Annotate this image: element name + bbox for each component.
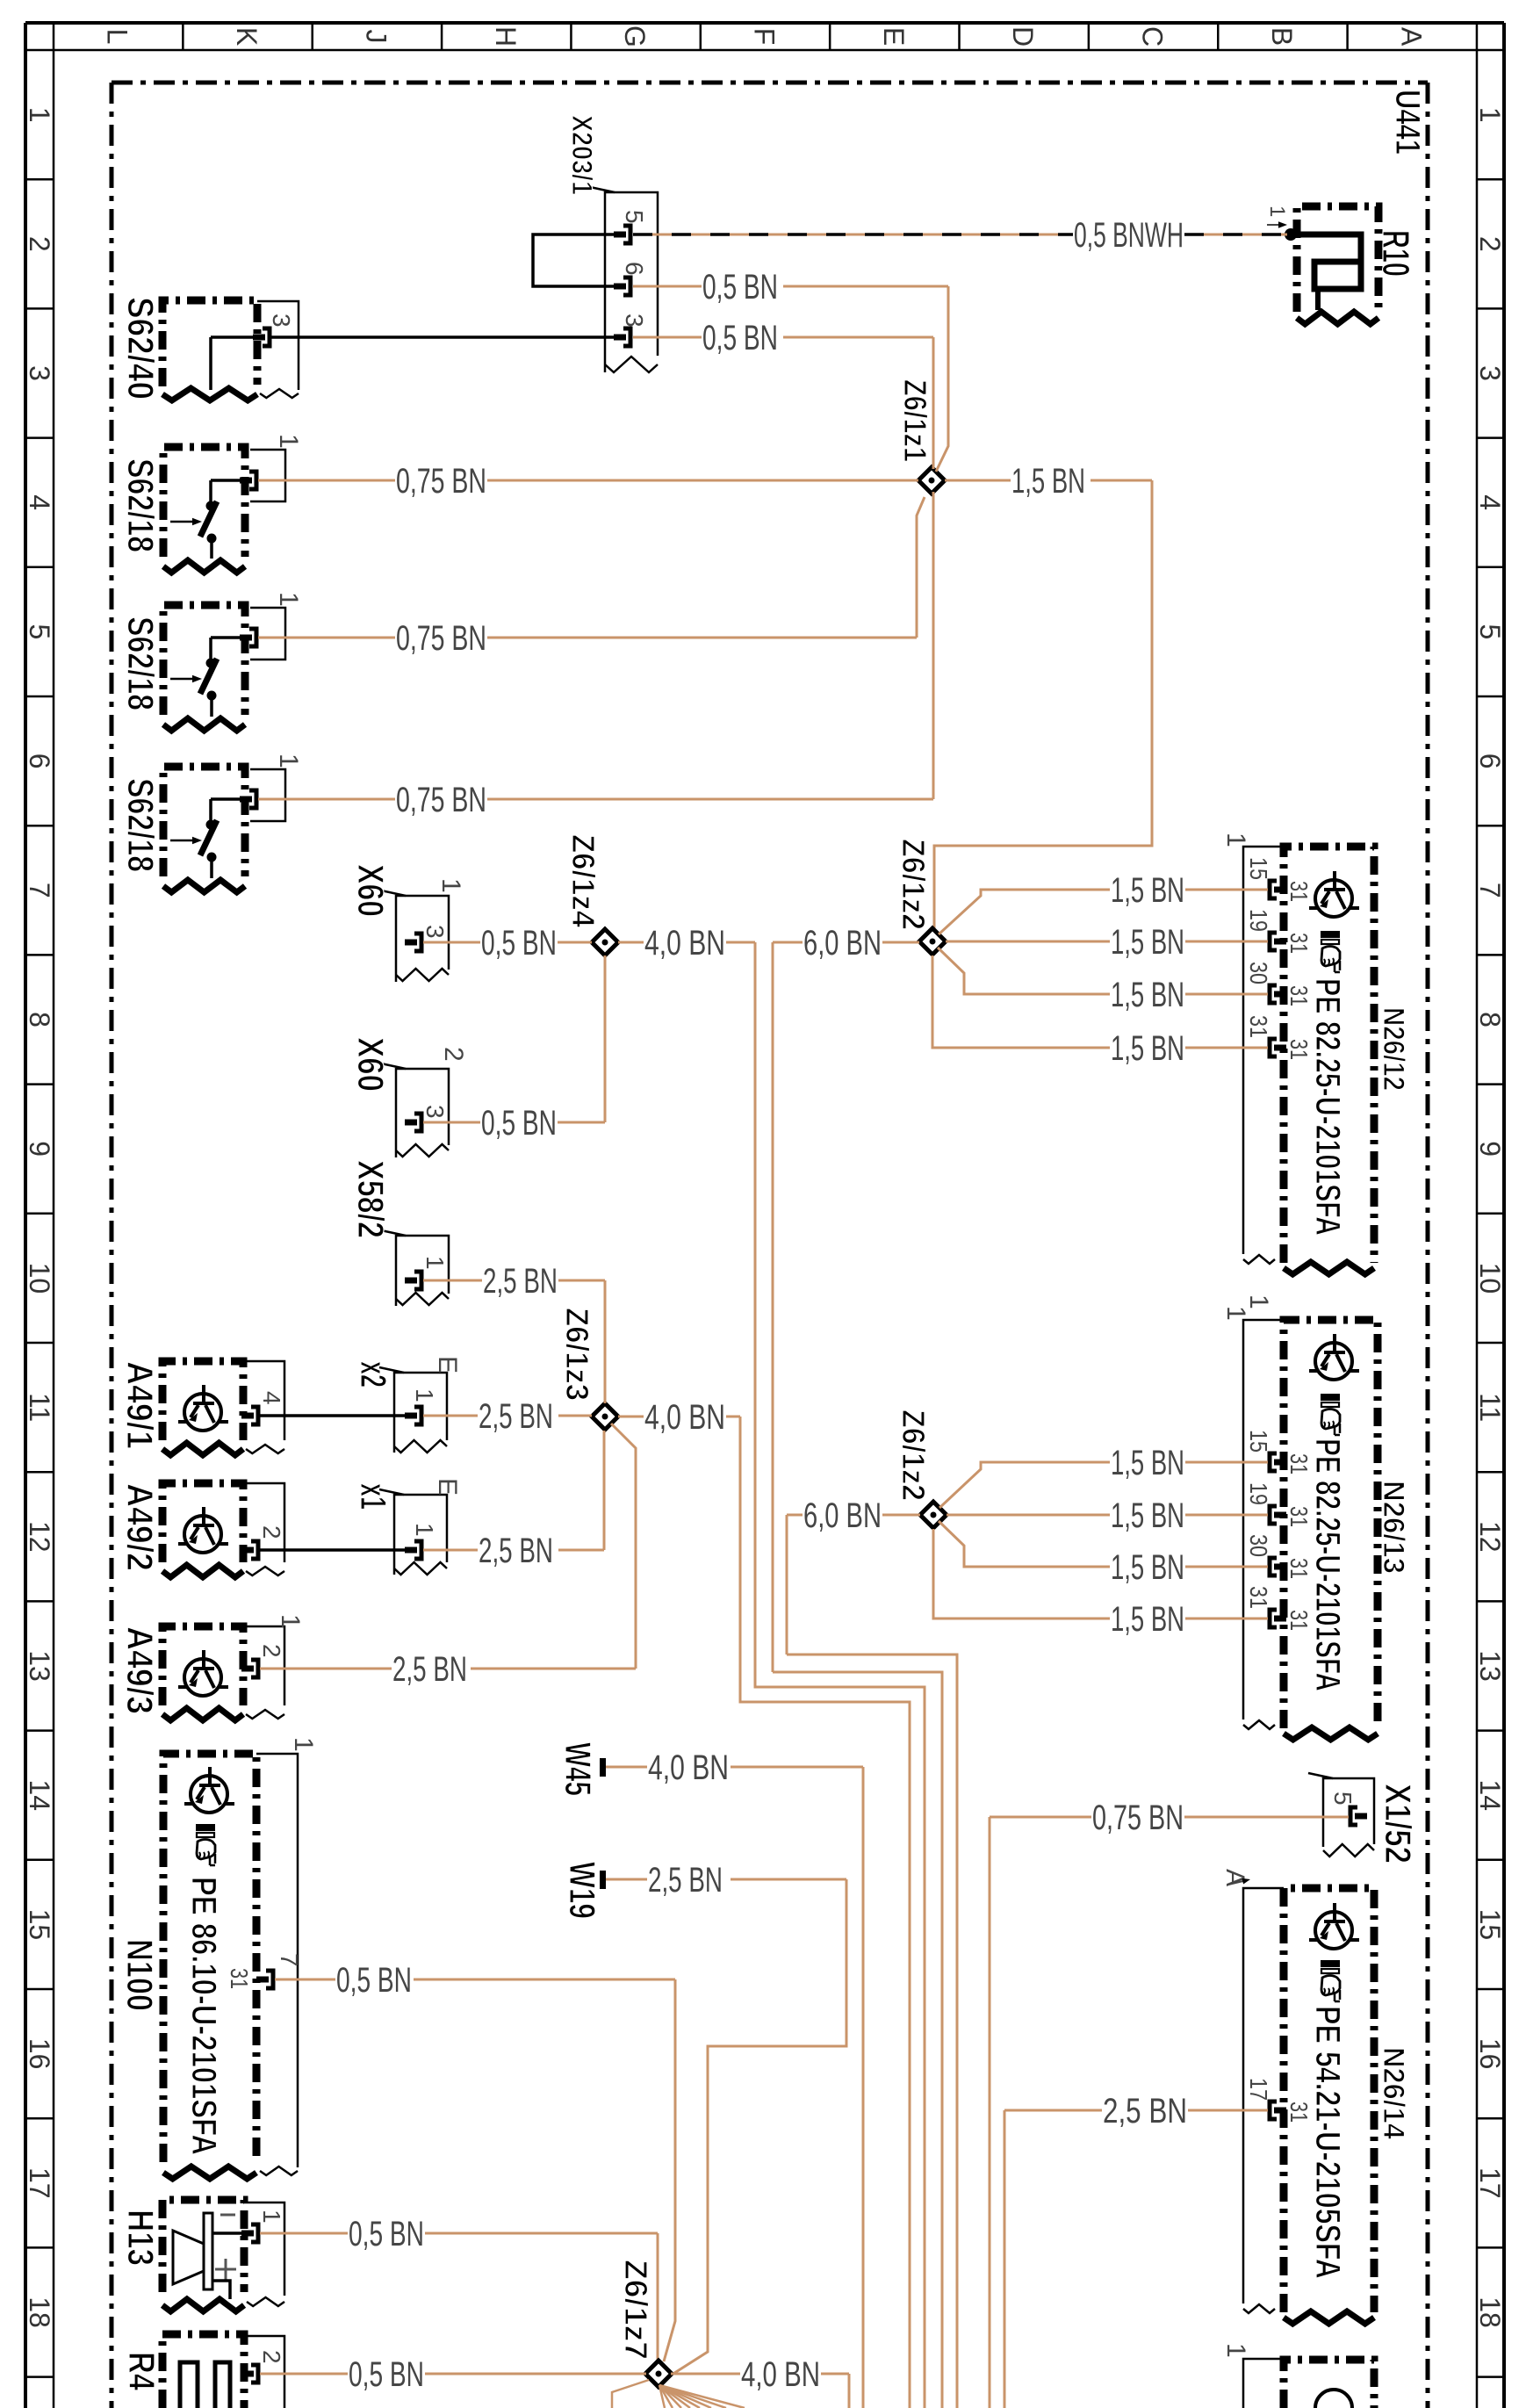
wire 1,5 BN Z6/1z1 to Z6/1z2(1) — [945, 479, 1011, 482]
switch S62/18 (3) — [163, 767, 245, 876]
svg-text:19: 19 — [1245, 909, 1272, 932]
svg-text:1,5 BN: 1,5 BN — [1111, 871, 1184, 910]
wire 1,5 BN Z6/1z2(1) to N26/12 pin15 — [939, 890, 1110, 934]
connector X58/2 — [396, 1236, 449, 1306]
wire 0,75 BN S62/18(2) to Z6/1z1 — [258, 637, 395, 639]
svg-text:2,5 BN: 2,5 BN — [479, 1397, 553, 1436]
svg-text:X1/52: X1/52 — [1378, 1784, 1419, 1864]
wire 6,0 BN trunk to Z6/1z2(2) — [786, 1515, 788, 1655]
wire 1,5 BN Z6/1z2(2) to N26/13 pin31 — [933, 1529, 1110, 1619]
svg-text:2: 2 — [24, 236, 55, 252]
svg-text:PE 54.21-U-2105SFA: PE 54.21-U-2105SFA — [1308, 2006, 1347, 2279]
svg-text:Z6/1z3: Z6/1z3 — [559, 1308, 595, 1401]
svg-text:L: L — [102, 29, 133, 45]
svg-text:1: 1 — [1221, 833, 1250, 847]
wire 1,5 BN Z6/1z2(2) to N26/13 pin15 — [939, 1462, 1110, 1508]
junction Z6/1z4 — [592, 929, 618, 955]
svg-text:S62/40: S62/40 — [120, 297, 162, 400]
wire 4,0 BN W45 down-page — [606, 1766, 647, 1769]
svg-text:1: 1 — [24, 107, 55, 123]
svg-text:15: 15 — [24, 1909, 55, 1941]
svg-text:N26/12: N26/12 — [1377, 1007, 1410, 1091]
svg-text:3: 3 — [421, 1105, 449, 1119]
wire 1,5 BN Z6/1z2(1) to N26/12 pin19 — [946, 941, 1110, 943]
svg-text:0,75 BN: 0,75 BN — [396, 462, 486, 501]
wire 0,5 BN R4 pin2 to Z6/1z7 — [260, 2373, 348, 2376]
wire S62/40 pin3 to X203/1 pin3 — [271, 335, 614, 339]
svg-text:1: 1 — [1474, 107, 1506, 123]
wire 1,5 BN Z6/1z2(1) to N26/12 pin31 — [932, 955, 1110, 1048]
svg-text:F: F — [748, 28, 780, 46]
svg-text:3: 3 — [268, 314, 295, 328]
wire 2,5 BN to N26/14 pin17 — [1004, 2109, 1102, 2112]
svg-text:11: 11 — [1474, 1393, 1506, 1422]
svg-text:15: 15 — [1245, 857, 1272, 880]
svg-text:1,5 BN: 1,5 BN — [1111, 976, 1184, 1014]
svg-text:2,5 BN: 2,5 BN — [648, 1861, 723, 1900]
svg-text:0,5 BN: 0,5 BN — [481, 1104, 557, 1143]
wire 0,5 BN X60(1) to Z6/1z4 — [423, 941, 480, 944]
svg-text:1: 1 — [258, 2210, 285, 2224]
svg-text:2,5 BN: 2,5 BN — [483, 1262, 558, 1301]
svg-text:1,5 BN: 1,5 BN — [1111, 1444, 1184, 1482]
lamp unit A49/1 — [162, 1361, 243, 1440]
svg-text:J: J — [360, 30, 392, 44]
svg-text:19: 19 — [1245, 1482, 1272, 1505]
svg-text:1,5 BN: 1,5 BN — [1111, 1029, 1184, 1068]
wire 2,5 BN x1 to Z6/1z3 — [423, 1549, 478, 1552]
svg-text:4: 4 — [1474, 494, 1506, 510]
svg-text:1: 1 — [1221, 2343, 1250, 2358]
wire A49/1 pin4 to x2 (black) — [260, 1414, 407, 1417]
wire 1,5 BN Z6/1z2(2) to N26/13 pin19 — [947, 1514, 1110, 1517]
horn H13 — [162, 2200, 244, 2292]
svg-text:X203/1: X203/1 — [566, 115, 598, 195]
svg-text:1: 1 — [1265, 205, 1289, 217]
svg-text:X60: X60 — [350, 1037, 392, 1092]
svg-text:4,0 BN: 4,0 BN — [648, 1748, 729, 1787]
svg-text:10: 10 — [1474, 1263, 1506, 1294]
svg-text:1: 1 — [436, 878, 465, 893]
svg-text:1: 1 — [274, 434, 303, 449]
wire 0,75 BN S62/18(1) to Z6/1z1 — [258, 479, 395, 482]
wire 1,5 BN Z6/1z2(2) to N26/13 pin30 — [939, 1521, 1110, 1567]
svg-text:X60: X60 — [350, 864, 392, 917]
svg-text:14: 14 — [24, 1779, 55, 1811]
svg-text:PE 82.25-U-2101SFA: PE 82.25-U-2101SFA — [1308, 1438, 1347, 1691]
svg-text:13: 13 — [24, 1650, 55, 1682]
svg-text:16: 16 — [24, 2038, 55, 2070]
wire 2,5 BN x2 to Z6/1z3 — [423, 1415, 478, 1417]
svg-text:0,5 BN: 0,5 BN — [702, 319, 778, 357]
svg-text:1: 1 — [274, 753, 303, 768]
lamp unit A49/3 — [162, 1626, 243, 1705]
wire 4,0 BN Z6/1z3 trunk down-page — [618, 1416, 644, 1418]
junction Z6/1z2 (1) — [919, 928, 946, 955]
connector X60 (1) — [396, 896, 449, 982]
svg-text:18: 18 — [24, 2296, 55, 2328]
svg-text:7: 7 — [1474, 883, 1506, 898]
svg-text:B: B — [1266, 27, 1298, 46]
wire 0,5 BN H13 pin1 to Z6/1z7 — [260, 2232, 348, 2235]
svg-text:0,5 BN: 0,5 BN — [349, 2215, 424, 2253]
svg-text:A49/3: A49/3 — [119, 1626, 161, 1714]
svg-text:W19: W19 — [562, 1862, 603, 1919]
svg-text:12: 12 — [1474, 1521, 1506, 1553]
svg-text:S62/18: S62/18 — [120, 778, 162, 872]
svg-text:0,5 BNWH: 0,5 BNWH — [1074, 216, 1184, 255]
wire 4,0 BN Z6/1z4 trunk down-page — [618, 941, 644, 944]
svg-text:4,0 BN: 4,0 BN — [644, 924, 725, 962]
svg-text:1: 1 — [289, 1737, 318, 1752]
svg-text:1,5 BN: 1,5 BN — [1111, 1548, 1184, 1587]
svg-text:2,5 BN: 2,5 BN — [1103, 2092, 1187, 2130]
svg-text:E: E — [433, 1478, 462, 1496]
svg-text:1: 1 — [1221, 1306, 1250, 1321]
svg-text:31: 31 — [1285, 881, 1313, 902]
svg-text:PE 86.10-U-2101SFA: PE 86.10-U-2101SFA — [184, 1877, 223, 2155]
svg-text:10: 10 — [24, 1263, 55, 1294]
svg-text:4: 4 — [258, 1391, 285, 1405]
svg-text:S62/18: S62/18 — [120, 458, 162, 552]
control unit N26/12 — [1243, 847, 1284, 1254]
svg-text:H13: H13 — [120, 2210, 162, 2266]
svg-text:PE 82.25-U-2101SFA: PE 82.25-U-2101SFA — [1308, 978, 1347, 1236]
junction Z6/1z1 — [918, 467, 945, 494]
junction Z6/1z7 — [645, 2361, 672, 2387]
svg-text:5: 5 — [24, 624, 55, 640]
svg-text:G: G — [619, 25, 651, 47]
svg-text:2: 2 — [439, 1047, 468, 1062]
svg-text:16: 16 — [1474, 2038, 1506, 2070]
svg-text:6: 6 — [1474, 753, 1506, 769]
svg-text:31: 31 — [1245, 1586, 1272, 1609]
svg-text:N26/13: N26/13 — [1377, 1481, 1410, 1574]
svg-text:1,5 BN: 1,5 BN — [1011, 462, 1085, 501]
control unit N26/13 — [1243, 1320, 1284, 1719]
wire 0,5 BN N100 pin7 to Z6/1z7 — [275, 1979, 335, 1981]
svg-text:4: 4 — [24, 494, 55, 510]
ground point W19 — [600, 1871, 606, 1889]
svg-text:2,5 BN: 2,5 BN — [392, 1650, 467, 1689]
resistor R10 — [1297, 206, 1378, 312]
svg-text:0,5 BN: 0,5 BN — [481, 924, 557, 962]
svg-text:12: 12 — [24, 1521, 55, 1553]
svg-text:0,5 BN: 0,5 BN — [336, 1961, 412, 2000]
svg-text:18: 18 — [1474, 2296, 1506, 2328]
svg-text:31: 31 — [1245, 1015, 1272, 1038]
svg-text:17: 17 — [24, 2167, 55, 2199]
wire 0,5 BNWH X203/1 pin5 to R10 (dashed) — [633, 234, 1073, 236]
svg-text:0,75 BN: 0,75 BN — [1092, 1799, 1184, 1837]
svg-text:K: K — [231, 27, 263, 46]
wires Z6/1z7 fan down-page — [659, 2385, 665, 2408]
wire 0,75 BN S62/18(3) to Z6/1z1 — [258, 798, 395, 801]
svg-text:A49/1: A49/1 — [119, 1361, 161, 1449]
svg-text:5: 5 — [1329, 1792, 1357, 1806]
svg-text:x2: x2 — [353, 1361, 394, 1388]
svg-text:0,75 BN: 0,75 BN — [396, 781, 486, 819]
wire A49/2 pin2 to x1 (black) — [260, 1548, 407, 1552]
connector x1 — [394, 1495, 447, 1575]
svg-text:R4: R4 — [121, 2352, 162, 2391]
svg-text:17: 17 — [1474, 2167, 1506, 2199]
svg-text:3: 3 — [421, 925, 449, 939]
svg-text:5: 5 — [621, 210, 648, 224]
svg-text:E: E — [878, 27, 910, 46]
svg-text:1: 1 — [411, 1523, 438, 1537]
svg-text:30: 30 — [1245, 962, 1272, 984]
svg-text:31: 31 — [226, 1968, 253, 1989]
svg-text:1: 1 — [276, 1614, 305, 1629]
wire 4,0 BN Z6/1z7 down-page — [671, 2373, 740, 2376]
svg-text:x1: x1 — [353, 1483, 394, 1510]
svg-text:6,0 BN: 6,0 BN — [803, 924, 882, 962]
svg-text:2: 2 — [258, 1525, 285, 1539]
svg-text:8: 8 — [1474, 1012, 1506, 1027]
svg-text:4,0 BN: 4,0 BN — [741, 2355, 820, 2394]
connector x2 — [394, 1373, 447, 1453]
svg-text:6: 6 — [24, 753, 55, 769]
svg-text:0,5 BN: 0,5 BN — [702, 268, 778, 306]
svg-text:1: 1 — [274, 592, 303, 607]
svg-text:0,5 BN: 0,5 BN — [349, 2355, 424, 2394]
control unit N26/14 — [1243, 1888, 1284, 2303]
control unit (partial, bottom-right) — [1284, 2360, 1374, 2408]
svg-text:3: 3 — [24, 365, 55, 381]
switch S62/40 — [162, 300, 257, 386]
svg-text:2: 2 — [258, 2350, 285, 2364]
svg-text:2: 2 — [258, 1644, 285, 1658]
wire 2,5 BN W19 to Z6/1z7 — [606, 1878, 647, 1881]
svg-text:X58/2: X58/2 — [350, 1160, 392, 1238]
svg-text:N26/14: N26/14 — [1377, 2047, 1410, 2139]
lamp unit A49/2 — [162, 1483, 243, 1562]
svg-text:S62/18: S62/18 — [120, 616, 162, 710]
connector X1/52 — [1323, 1778, 1374, 1847]
svg-text:E: E — [433, 1356, 462, 1373]
svg-text:30: 30 — [1245, 1534, 1272, 1557]
svg-text:R10: R10 — [1374, 230, 1417, 277]
svg-text:8: 8 — [24, 1012, 55, 1027]
svg-text:2,5 BN: 2,5 BN — [479, 1532, 553, 1570]
wire 2,5 BN X58/2 to Z6/1z3 — [423, 1280, 482, 1282]
svg-text:17: 17 — [1245, 2078, 1272, 2101]
svg-text:A49/2: A49/2 — [119, 1483, 161, 1571]
wire 6,0 BN trunk to Z6/1z2(1) — [772, 942, 774, 1672]
svg-text:11: 11 — [24, 1393, 55, 1422]
svg-text:15: 15 — [1474, 1909, 1506, 1941]
wire 0,75 BN to X1/52 pin5 — [990, 1816, 1091, 1819]
svg-text:6,0 BN: 6,0 BN — [803, 1496, 882, 1535]
svg-text:7: 7 — [24, 883, 55, 898]
svg-text:3: 3 — [621, 314, 648, 328]
svg-text:4,0 BN: 4,0 BN — [644, 1398, 725, 1437]
svg-text:13: 13 — [1474, 1650, 1506, 1682]
connector X60 (2) — [396, 1069, 449, 1157]
svg-text:U441: U441 — [1388, 90, 1427, 155]
svg-text:7: 7 — [276, 1953, 303, 1967]
svg-text:1: 1 — [421, 1256, 449, 1270]
svg-text:A: A — [1395, 27, 1427, 47]
boundary U441 (dash-dot border) — [112, 81, 1428, 85]
svg-text:Z6/1z4: Z6/1z4 — [565, 834, 601, 927]
svg-text:6: 6 — [621, 262, 648, 276]
switch S62/18 (2) — [163, 605, 245, 715]
svg-text:9: 9 — [24, 1141, 55, 1157]
svg-text:D: D — [1007, 26, 1039, 47]
wire 0,5 BN X203/1 pin6 to Z6/1z1 — [633, 285, 702, 288]
wire 2,5 BN A49/3 to Z6/1z3 — [260, 1668, 392, 1670]
svg-text:2: 2 — [1474, 236, 1506, 252]
ground point W45 — [600, 1758, 606, 1777]
svg-text:Z6/1z2: Z6/1z2 — [896, 1409, 932, 1501]
svg-text:1,5 BN: 1,5 BN — [1111, 1600, 1184, 1639]
svg-text:3: 3 — [1474, 365, 1506, 381]
resistor R4 — [162, 2334, 244, 2408]
svg-text:W45: W45 — [558, 1742, 599, 1796]
svg-text:N100: N100 — [119, 1939, 161, 2011]
wire 1,5 BN Z6/1z2(1) to N26/12 pin30 — [938, 948, 1110, 994]
svg-text:15: 15 — [1245, 1430, 1272, 1453]
svg-text:Z6/1z7: Z6/1z7 — [618, 2260, 654, 2360]
svg-text:Z6/1z2: Z6/1z2 — [896, 839, 932, 930]
wire jumper X203/1 pin5 to pin6 — [533, 234, 614, 286]
svg-text:Z6/1z1: Z6/1z1 — [897, 379, 933, 462]
svg-text:14: 14 — [1474, 1779, 1506, 1811]
svg-text:H: H — [490, 26, 522, 47]
svg-text:1,5 BN: 1,5 BN — [1111, 1496, 1184, 1535]
svg-text:5: 5 — [1474, 624, 1506, 640]
junction Z6/1z2 (2) — [920, 1502, 947, 1528]
svg-text:9: 9 — [1474, 1141, 1506, 1157]
connector X203/1 — [605, 192, 658, 372]
svg-text:31: 31 — [1285, 933, 1313, 954]
switch S62/18 (1) — [163, 447, 245, 557]
control unit N100 — [163, 1754, 256, 2162]
wire 0,5 BN X60(2) to Z6/1z4 — [423, 1121, 480, 1124]
svg-text:C: C — [1137, 26, 1169, 47]
wire 0,5 BN X203/1 pin3 to Z6/1z1 — [633, 336, 702, 339]
svg-text:1,5 BN: 1,5 BN — [1111, 923, 1184, 962]
svg-text:1: 1 — [411, 1388, 438, 1402]
junction Z6/1z3 — [592, 1403, 618, 1430]
svg-text:0,75 BN: 0,75 BN — [396, 619, 486, 658]
